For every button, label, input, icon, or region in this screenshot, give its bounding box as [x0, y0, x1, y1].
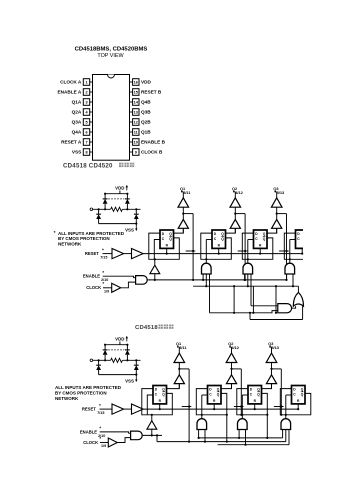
svg-text:3/11: 3/11 — [179, 345, 187, 350]
CLOCK input label — [86, 281, 109, 293]
AND gate G2 — [243, 263, 253, 274]
wire: OR right input — [249, 306, 303, 319]
wire: G3 input stubs — [283, 430, 289, 445]
flip-flop FF3 — [254, 230, 268, 248]
svg-text:CLOCK: CLOCK — [86, 285, 101, 290]
svg-text:Q1B: Q1B — [141, 130, 151, 135]
flip-flop FF1 — [153, 386, 167, 404]
pin 9 CLOCK B — [130, 149, 163, 156]
flip-flop FF2 — [212, 230, 226, 248]
svg-text:*: * — [99, 436, 101, 441]
wire: G4 output to OR — [292, 306, 296, 308]
svg-text:6: 6 — [85, 131, 87, 135]
svg-text:VSS: VSS — [72, 150, 81, 155]
wire: reset input — [103, 253, 113, 255]
AND gate G0 (enable-clock) — [131, 431, 143, 440]
pin 6 Q4A — [72, 129, 93, 136]
VSS power label — [125, 375, 137, 384]
wire: FF1 reset stub — [166, 248, 168, 253]
svg-text:Q: Q — [217, 393, 220, 397]
wire: OR output riser — [297, 286, 299, 292]
svg-text:Q4A: Q4A — [72, 130, 82, 135]
svg-text:CD4518: CD4518 — [135, 325, 158, 331]
wire: distributed-diode dashed link — [108, 198, 124, 200]
pin 1 CLOCK A — [60, 79, 92, 86]
pin 4 Q2A — [72, 109, 93, 116]
note: ALL INPUTS ARE PROTECTED — [54, 230, 125, 247]
AND gate G2 — [238, 419, 248, 430]
wire: enable to gate — [100, 432, 131, 433]
AND gate G3 — [281, 419, 291, 430]
AND gate G1 — [202, 263, 212, 274]
output buffer pair Q2 — [230, 186, 244, 233]
AND gate G4 (decade gate) — [278, 304, 292, 313]
svg-text:VSS: VSS — [125, 378, 134, 383]
wire: buffer link — [124, 408, 132, 410]
pin 10 ENABLE B — [130, 139, 166, 146]
buffer B3 (clock) — [108, 438, 117, 447]
buffer B2 (reset) — [132, 404, 144, 414]
svg-text:1/9: 1/9 — [101, 444, 106, 448]
svg-text:CLOCK: CLOCK — [83, 440, 98, 445]
pin 7 RESET A — [61, 139, 92, 146]
buffer B3 (clock) — [112, 283, 121, 292]
caption: CD4518 logic diagram — [135, 325, 173, 332]
wire: carry verticals — [233, 285, 277, 314]
svg-text:VDD: VDD — [115, 337, 124, 342]
wire: G2 input stubs — [238, 430, 247, 446]
wire: VDD rail — [104, 191, 129, 195]
svg-text:NETWORK: NETWORK — [58, 242, 82, 247]
pin 11 Q1B — [130, 129, 152, 136]
wire: VSS rail — [99, 374, 138, 376]
wire: G2 output riser / FF3 C input — [247, 240, 254, 264]
svg-text:ENABLE: ENABLE — [83, 274, 100, 279]
flip-flop FF2 — [208, 386, 222, 404]
wire: clock riser to FF1 — [154, 240, 160, 266]
resistor R (input series) — [111, 358, 123, 362]
svg-text:VDD: VDD — [141, 80, 152, 85]
svg-text:Q: Q — [257, 387, 260, 391]
svg-text:Q: Q — [221, 237, 224, 241]
input terminal node — [90, 359, 93, 362]
wire: FF3 feedback loop — [242, 233, 272, 259]
svg-text:BY CMOS PROTECTION: BY CMOS PROTECTION — [58, 236, 110, 241]
flip-flop FF4 — [296, 230, 304, 248]
flip-flop FF4 — [292, 386, 306, 404]
pin 12 Q2B — [130, 119, 152, 126]
wire: input line — [93, 359, 141, 361]
wire: FF1 Q to buffer — [174, 228, 184, 233]
wire: FF4 feedback loop (cut) — [284, 233, 303, 259]
wire: clock buffer to gate — [121, 282, 136, 288]
wire: FF3 feedback loop — [237, 389, 267, 415]
wire: bus B — [193, 285, 298, 287]
svg-text:CLOCK A: CLOCK A — [60, 80, 82, 85]
wire: bus A — [149, 279, 287, 281]
pin 5 Q3A — [72, 119, 93, 126]
wire: FF1 feedback loop — [142, 389, 173, 415]
output buffer pair Q1 — [174, 341, 187, 389]
pin 14 Q4B — [130, 99, 152, 106]
svg-text:11: 11 — [134, 131, 138, 135]
RESET input label — [82, 403, 105, 415]
buffer B1 (reset) — [112, 404, 124, 414]
wire: FF3 Q to buffer — [267, 228, 277, 233]
AND gate G1 — [197, 419, 207, 430]
svg-text:Q: Q — [162, 393, 165, 397]
svg-text:3: 3 — [85, 101, 87, 105]
svg-text:CLOCK B: CLOCK B — [141, 150, 163, 155]
svg-text:Q: Q — [169, 232, 172, 236]
RESET input label — [85, 248, 108, 260]
svg-text:CD4518 CD4520: CD4518 CD4520 — [63, 162, 113, 169]
wire: G4 upper input — [251, 305, 278, 307]
svg-text:Q: Q — [257, 393, 260, 397]
wire: FF4 reset stub — [297, 404, 299, 409]
wire: G3 output riser / FF4 C input — [289, 240, 296, 264]
wire: clock riser to FF1 — [147, 395, 153, 421]
svg-text:Q1A: Q1A — [72, 100, 82, 105]
ENABLE input label — [83, 270, 108, 282]
output buffer pair Q2 — [226, 341, 240, 389]
svg-text:CD4518BMS, CD4520BMS: CD4518BMS, CD4520BMS — [75, 47, 148, 53]
svg-text:Q2B: Q2B — [141, 120, 151, 125]
output buffer pair Q3 — [271, 186, 285, 233]
protection diode D4 — [134, 360, 139, 374]
wire: bus A — [199, 437, 283, 439]
ENABLE input label — [80, 426, 105, 438]
svg-text:*: * — [99, 403, 101, 408]
wire: FF3 reset stub — [254, 404, 256, 409]
svg-text:TOP VIEW: TOP VIEW — [97, 53, 124, 59]
pin 3 Q1A — [72, 99, 93, 106]
wire: FF2 reset stub — [213, 404, 215, 409]
svg-text:1/9: 1/9 — [104, 289, 109, 293]
svg-text:15: 15 — [134, 91, 138, 95]
svg-text:Q4B: Q4B — [141, 100, 151, 105]
input terminal node — [90, 208, 93, 211]
svg-text:Q: Q — [301, 387, 304, 391]
svg-text:*: * — [99, 426, 101, 431]
flip-flop FF1 — [160, 230, 174, 248]
wire: G2 output riser / FF3 C input — [241, 395, 248, 419]
wire: FF3 Q to buffer — [262, 384, 272, 389]
wire: FF2 Q to buffer — [221, 384, 232, 389]
svg-text:ENABLE A: ENABLE A — [58, 90, 82, 95]
svg-text:ENABLE: ENABLE — [80, 429, 97, 434]
protection diode D2 — [125, 194, 130, 210]
svg-text:RESET B: RESET B — [141, 90, 162, 95]
protection diode D1 — [103, 194, 108, 210]
protection diode D3 — [96, 360, 101, 374]
svg-text:RESET: RESET — [82, 407, 96, 412]
svg-text:4/12: 4/12 — [231, 345, 239, 350]
wire: FF4 feedback loop — [280, 389, 311, 415]
wire: input line — [93, 208, 141, 210]
protection diode D1 — [103, 345, 108, 361]
svg-text:VDD: VDD — [115, 186, 124, 191]
buffer B1 (reset) — [112, 249, 124, 259]
pin 8 VSS — [72, 149, 93, 156]
wire: G3 input stubs — [287, 274, 295, 287]
wire: G1 input stubs — [198, 430, 207, 443]
svg-text:4/12: 4/12 — [235, 190, 243, 195]
wire: FF2 reset stub — [218, 248, 220, 253]
wire: G3 output riser / FF4 C input — [285, 395, 292, 419]
wire: clock to buffer — [100, 442, 108, 444]
output buffer pair Q3 — [266, 341, 280, 389]
svg-text:Q: Q — [301, 393, 304, 397]
pin 16 VDD — [130, 79, 152, 86]
svg-text:*: * — [102, 281, 104, 286]
svg-text:13: 13 — [134, 111, 138, 115]
wire: buffer link — [124, 253, 132, 255]
VSS power label — [125, 224, 137, 233]
wire: bus C — [210, 311, 278, 313]
wire: distributed-diode dashed link — [108, 349, 124, 351]
svg-text:Q: Q — [217, 387, 220, 391]
wire: reset input — [100, 408, 113, 410]
wire: G0 output / clock node — [147, 274, 156, 281]
note: ALL INPUTS ARE PROTECTED — [55, 385, 122, 401]
svg-text:Q: Q — [263, 232, 266, 236]
svg-text:7/15: 7/15 — [97, 411, 104, 415]
wire: FF4 reset stub — [301, 248, 303, 253]
wire: Q2 feedback tap — [232, 369, 243, 416]
wire: bus B — [157, 441, 286, 443]
wire: FF1 Q to buffer — [167, 384, 180, 389]
wire: reset bus — [143, 408, 299, 410]
wire: Q3 feedback tap — [277, 214, 288, 281]
buffer B4 (clock driver, up) — [147, 421, 157, 430]
svg-text:Q: Q — [263, 237, 266, 241]
wire: interstage links — [186, 250, 289, 252]
wire: FF2 feedback loop — [196, 389, 227, 415]
wire: reset bus — [143, 253, 303, 255]
svg-text:Q: Q — [221, 232, 224, 236]
svg-text:7/15: 7/15 — [100, 255, 107, 259]
svg-text:7: 7 — [85, 141, 87, 145]
wire: G0 output bus — [156, 434, 158, 441]
svg-text:NETWORK: NETWORK — [55, 396, 79, 401]
svg-text:Q3A: Q3A — [72, 120, 82, 125]
VDD power label — [115, 185, 128, 191]
svg-text:RESET: RESET — [85, 251, 99, 256]
svg-text:*: * — [54, 230, 56, 236]
wire: Q1 feedback tap — [183, 214, 194, 281]
svg-text:*: * — [102, 270, 104, 275]
caption: CD4518 CD4520 pinout — [63, 162, 134, 169]
svg-text:ENABLE B: ENABLE B — [141, 140, 166, 145]
svg-text:VSS: VSS — [125, 227, 134, 232]
svg-text:10: 10 — [134, 141, 138, 145]
wire: bus C — [218, 444, 289, 446]
wire: Q2 feedback tap — [235, 214, 246, 281]
svg-text:1: 1 — [85, 81, 87, 85]
buffer B4 (clock driver, up) — [150, 265, 160, 274]
svg-text:8: 8 — [85, 151, 87, 155]
svg-text:3/11: 3/11 — [183, 190, 191, 195]
pin 15 RESET B — [130, 89, 162, 96]
resistor R (input series) — [111, 207, 123, 211]
wire: FF1 feedback loop — [149, 233, 180, 259]
wire: loop-right drops — [226, 414, 269, 443]
wire: G1 output riser / FF2 C input — [201, 395, 208, 419]
CLOCK input label — [83, 436, 106, 448]
pin 13 Q3B — [130, 109, 152, 116]
svg-text:*: * — [102, 248, 104, 253]
wire: clock to buffer — [103, 287, 112, 289]
wire: enable to gate — [103, 276, 136, 278]
wire: FF3 reset stub — [259, 248, 261, 253]
svg-text:5/13: 5/13 — [277, 190, 285, 195]
VDD power label — [115, 336, 128, 342]
svg-text:12: 12 — [134, 121, 138, 125]
svg-text:9: 9 — [135, 151, 137, 155]
wire: G0 output / clock node — [142, 429, 162, 436]
svg-text:5/13: 5/13 — [271, 345, 279, 350]
flip-flop FF3 — [248, 386, 262, 404]
svg-text:2: 2 — [85, 91, 87, 95]
wire: Q3 feedback tap — [272, 369, 283, 416]
svg-text:BY CMOS PROTECTION: BY CMOS PROTECTION — [55, 390, 107, 395]
wire: VSS rail — [99, 223, 138, 225]
wire: VDD rail — [104, 342, 129, 346]
wire: Q1 feedback tap — [179, 369, 190, 443]
AND gate G3 — [285, 263, 295, 274]
svg-text:ALL INPUTS ARE PROTECTED: ALL INPUTS ARE PROTECTED — [55, 385, 122, 390]
IC package U1 CD4518/CD4520 DIP-16 body — [93, 75, 130, 161]
svg-text:RESET A: RESET A — [61, 140, 82, 145]
wire: G1 input stubs — [202, 274, 210, 313]
wire: G1 output riser / FF2 C input — [205, 240, 212, 264]
wire: clock buffer to gate — [117, 438, 130, 443]
buffer B2 (reset) — [132, 249, 144, 259]
protection diode D3 — [96, 209, 101, 223]
svg-text:5: 5 — [85, 121, 87, 125]
protection diode D4 — [134, 209, 139, 223]
svg-text:ALL INPUTS ARE PROTECTED: ALL INPUTS ARE PROTECTED — [58, 231, 125, 236]
wire: FF2 feedback loop — [201, 233, 232, 259]
svg-text:Q: Q — [169, 237, 172, 241]
svg-text:Q: Q — [162, 387, 165, 391]
wire: G2 input stubs — [244, 274, 252, 306]
wire: FF2 Q to buffer — [226, 228, 236, 233]
wire: FF1 reset stub — [159, 404, 161, 409]
wire: interstage links — [182, 405, 284, 407]
svg-text:16: 16 — [134, 81, 138, 85]
protection diode D2 — [125, 345, 130, 361]
OR gate G5 — [293, 292, 303, 306]
svg-text:Q3B: Q3B — [141, 110, 151, 115]
pin 2 ENABLE A — [58, 89, 93, 96]
svg-text:Q2A: Q2A — [72, 110, 82, 115]
AND gate G0 (enable-clock) — [136, 276, 148, 285]
output buffer pair Q1 — [178, 186, 191, 233]
